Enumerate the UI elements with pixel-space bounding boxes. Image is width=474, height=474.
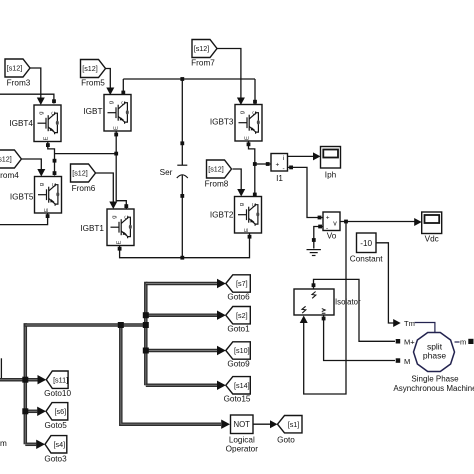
svg-text:Goto10: Goto10 xyxy=(44,389,71,398)
bus wire: stub to Goto10 xyxy=(38,375,47,384)
svg-text:IGBT: IGBT xyxy=(83,107,102,116)
svg-text:[s7]: [s7] xyxy=(236,279,248,288)
bus wire: stub to Goto9 xyxy=(146,346,226,355)
wire: mid rail between legs xyxy=(55,153,117,155)
bus wire: right vertical bus xyxy=(144,282,148,386)
wire: top DC rail xyxy=(123,78,255,80)
wire: Constant to machine Tm input xyxy=(376,243,401,327)
wire: IGBT collector to top rail xyxy=(121,79,125,95)
goto tag Goto9 xyxy=(226,342,251,369)
from tag From7 xyxy=(191,40,217,68)
junction: bus at Goto1 xyxy=(143,312,149,318)
svg-text:IGBT1: IGBT1 xyxy=(80,224,104,233)
machine port M+ xyxy=(396,338,416,347)
machine name label xyxy=(393,375,474,394)
svg-text:[s12]: [s12] xyxy=(72,169,88,178)
wire: From6 to IGBT1 gate xyxy=(96,173,118,209)
svg-text:m: m xyxy=(0,439,7,448)
svg-text:From8: From8 xyxy=(205,180,229,189)
svg-text:IGBT5: IGBT5 xyxy=(10,193,34,202)
svg-text:M: M xyxy=(404,357,410,366)
svg-text:Vo: Vo xyxy=(327,232,337,241)
svg-text:Goto1: Goto1 xyxy=(227,325,250,334)
goto tag Goto15 xyxy=(224,377,251,404)
svg-text:From6: From6 xyxy=(72,184,96,193)
bus wire: stub to Goto1 xyxy=(146,311,226,320)
svg-text:Asynchronous Machine: Asynchronous Machine xyxy=(393,384,474,393)
wire: NOT output to Goto xyxy=(253,420,278,428)
wire: left DC rail into IGBT4 collector xyxy=(0,94,56,103)
bus wire: top horizontal bus xyxy=(24,323,146,327)
wire: From5 to IGBT gate xyxy=(106,69,115,96)
svg-text:Goto3: Goto3 xyxy=(44,455,67,464)
svg-text:IGBT2: IGBT2 xyxy=(210,211,234,220)
junction: bus at NOT branch xyxy=(118,322,124,328)
transistor IGBT xyxy=(83,95,131,132)
transistor IGBT3 xyxy=(210,105,262,142)
wire: From8 to IGBT2 gate xyxy=(233,169,246,197)
svg-text:-: - xyxy=(283,166,285,173)
goto tag Goto1 xyxy=(226,307,251,334)
transistor IGBT1 xyxy=(80,209,134,246)
svg-text:Tm: Tm xyxy=(404,319,415,328)
svg-text:From7: From7 xyxy=(191,59,215,68)
subsystem Isolator xyxy=(294,289,361,315)
wire: Vo branch loop to Isolator lower-left input xyxy=(300,222,346,395)
svg-text:Operator: Operator xyxy=(226,445,259,454)
machine port Tm xyxy=(404,319,435,333)
svg-text:i: i xyxy=(283,155,284,162)
svg-text:[s12]: [s12] xyxy=(7,64,23,73)
goto tag Goto10 xyxy=(44,371,71,398)
junction: phase node xyxy=(253,162,257,166)
junction: Vo output branch xyxy=(344,220,348,224)
wire: IGBT emitter to IGBT1 collector xyxy=(114,131,128,209)
svg-text:-10: -10 xyxy=(360,239,372,248)
bus wire: stub to Goto3 xyxy=(25,440,45,449)
svg-text:Single Phase: Single Phase xyxy=(411,375,459,384)
wire: IGBT4 emitter to IGBT5 collector xyxy=(46,142,56,176)
junction: bottom rail at Ser branch xyxy=(180,256,184,260)
goto tag Goto6 xyxy=(226,275,251,302)
svg-text:[s1]: [s1] xyxy=(288,420,300,429)
machine port M xyxy=(396,357,411,366)
wire: From3 to IGBT4 gate xyxy=(30,68,45,105)
bus wire: stub to Goto15 xyxy=(146,381,226,390)
scope Iph xyxy=(321,147,341,180)
svg-text:Iph: Iph xyxy=(325,171,337,180)
from tag From3 xyxy=(5,59,31,88)
svg-text:[s2]: [s2] xyxy=(236,311,248,320)
svg-text:v: v xyxy=(333,221,337,228)
goto tag Goto xyxy=(277,416,302,445)
svg-text:M+: M+ xyxy=(404,338,415,347)
junction: top rail to Ser branch xyxy=(180,77,184,81)
svg-text:Logical: Logical xyxy=(229,436,255,445)
wire: I1 through to Vo plus input xyxy=(288,166,323,220)
goto tag Goto3 xyxy=(44,436,67,464)
wire: IGBT5 emitter to left edge xyxy=(0,213,50,225)
svg-text:m: m xyxy=(460,338,466,347)
transistor IGBT4 xyxy=(9,105,61,142)
svg-text:phase: phase xyxy=(423,351,446,361)
svg-text:[s12]: [s12] xyxy=(208,165,224,174)
from tag From8 xyxy=(205,160,232,189)
capacitor Ser series RLC branch xyxy=(160,143,188,196)
svg-text:IGBT4: IGBT4 xyxy=(9,119,33,128)
svg-text:Goto5: Goto5 xyxy=(45,421,68,430)
constant block -10 xyxy=(350,233,383,264)
svg-text:[s10]: [s10] xyxy=(234,346,250,355)
junction: mid rail at IGBT emitter drop xyxy=(114,152,118,156)
transistor IGBT5 xyxy=(10,177,62,214)
wire: top rail down to IGBT3 collector xyxy=(253,79,257,104)
svg-text:[s14]: [s14] xyxy=(234,381,250,390)
from tag From5 xyxy=(81,60,106,88)
machine output m xyxy=(455,338,474,347)
bus wire: source from left edge to Goto10 row xyxy=(0,378,39,382)
from tag From6 xyxy=(71,164,96,193)
svg-text:From3: From3 xyxy=(7,79,31,88)
wire: I1 signal output to Iph scope xyxy=(288,152,321,160)
logical operator NOT xyxy=(226,415,259,454)
svg-text:Goto6: Goto6 xyxy=(227,293,250,302)
svg-text:[s12]: [s12] xyxy=(82,64,98,73)
junction: bus at top corner xyxy=(143,322,149,328)
from tag From4 xyxy=(0,150,21,180)
current measurement I1 xyxy=(271,154,288,184)
bus wire: branch down to NOT operator xyxy=(121,325,230,429)
junction: bus at Goto9 xyxy=(143,348,149,354)
wire: IGBT3 emitter to phase node xyxy=(247,141,257,196)
voltage measurement Vo xyxy=(323,212,340,241)
scope Vdc xyxy=(422,212,442,244)
svg-text:I1: I1 xyxy=(276,174,283,183)
svg-text:Vdc: Vdc xyxy=(425,235,439,244)
svg-text:[s12]: [s12] xyxy=(0,155,12,164)
svg-text:Goto: Goto xyxy=(277,436,295,445)
svg-text:+: + xyxy=(326,214,330,221)
wire: From4 to IGBT5 gate xyxy=(21,159,45,177)
junction: bus at Goto5 xyxy=(22,408,28,414)
svg-text:[s11]: [s11] xyxy=(53,375,68,384)
wire: Vo output to Vdc scope xyxy=(340,218,422,226)
junction: bus at Goto10 xyxy=(22,377,28,383)
svg-text:+: + xyxy=(276,162,280,169)
svg-text:NOT: NOT xyxy=(233,420,250,429)
wire: Ser bottom port down to bottom rail xyxy=(180,194,184,258)
wire: phase node to I1 input xyxy=(255,162,271,166)
svg-text:[s6]: [s6] xyxy=(55,407,67,416)
wire: rail down to Ser top port xyxy=(180,79,184,145)
transistor IGBT2 xyxy=(210,197,262,234)
svg-text:[s12]: [s12] xyxy=(194,44,210,53)
svg-text:[s4]: [s4] xyxy=(54,440,66,449)
bus wire: stub to Goto5 xyxy=(25,407,46,416)
machine: single phase asynchronous machine xyxy=(414,333,455,372)
svg-text:From4: From4 xyxy=(0,171,19,180)
svg-text:Goto15: Goto15 xyxy=(224,395,251,404)
wire: Vo minus to ground xyxy=(312,225,323,249)
ground xyxy=(307,250,321,256)
bus wire: stub to Goto6 xyxy=(146,279,226,288)
goto tag Goto5 xyxy=(45,403,68,430)
wire: From7 to IGBT3 gate xyxy=(217,49,245,106)
wire stub at left edge xyxy=(0,358,2,378)
svg-text:Goto9: Goto9 xyxy=(227,360,250,369)
svg-text:Constant: Constant xyxy=(350,255,383,264)
wire: Isolator lower-right port to machine M terminal xyxy=(322,316,395,361)
svg-text:IGBT3: IGBT3 xyxy=(210,118,234,127)
svg-text:Ser: Ser xyxy=(160,168,173,177)
svg-text:From5: From5 xyxy=(81,79,105,88)
bus wire: left vertical bus xyxy=(24,323,28,444)
wire: IGBT1 emitter along bottom rail up to IGBT2 emitter xyxy=(118,234,252,258)
wire: Isolator top port to machine M+ terminal xyxy=(312,279,395,341)
svg-text:Isolator: Isolator xyxy=(335,298,361,307)
